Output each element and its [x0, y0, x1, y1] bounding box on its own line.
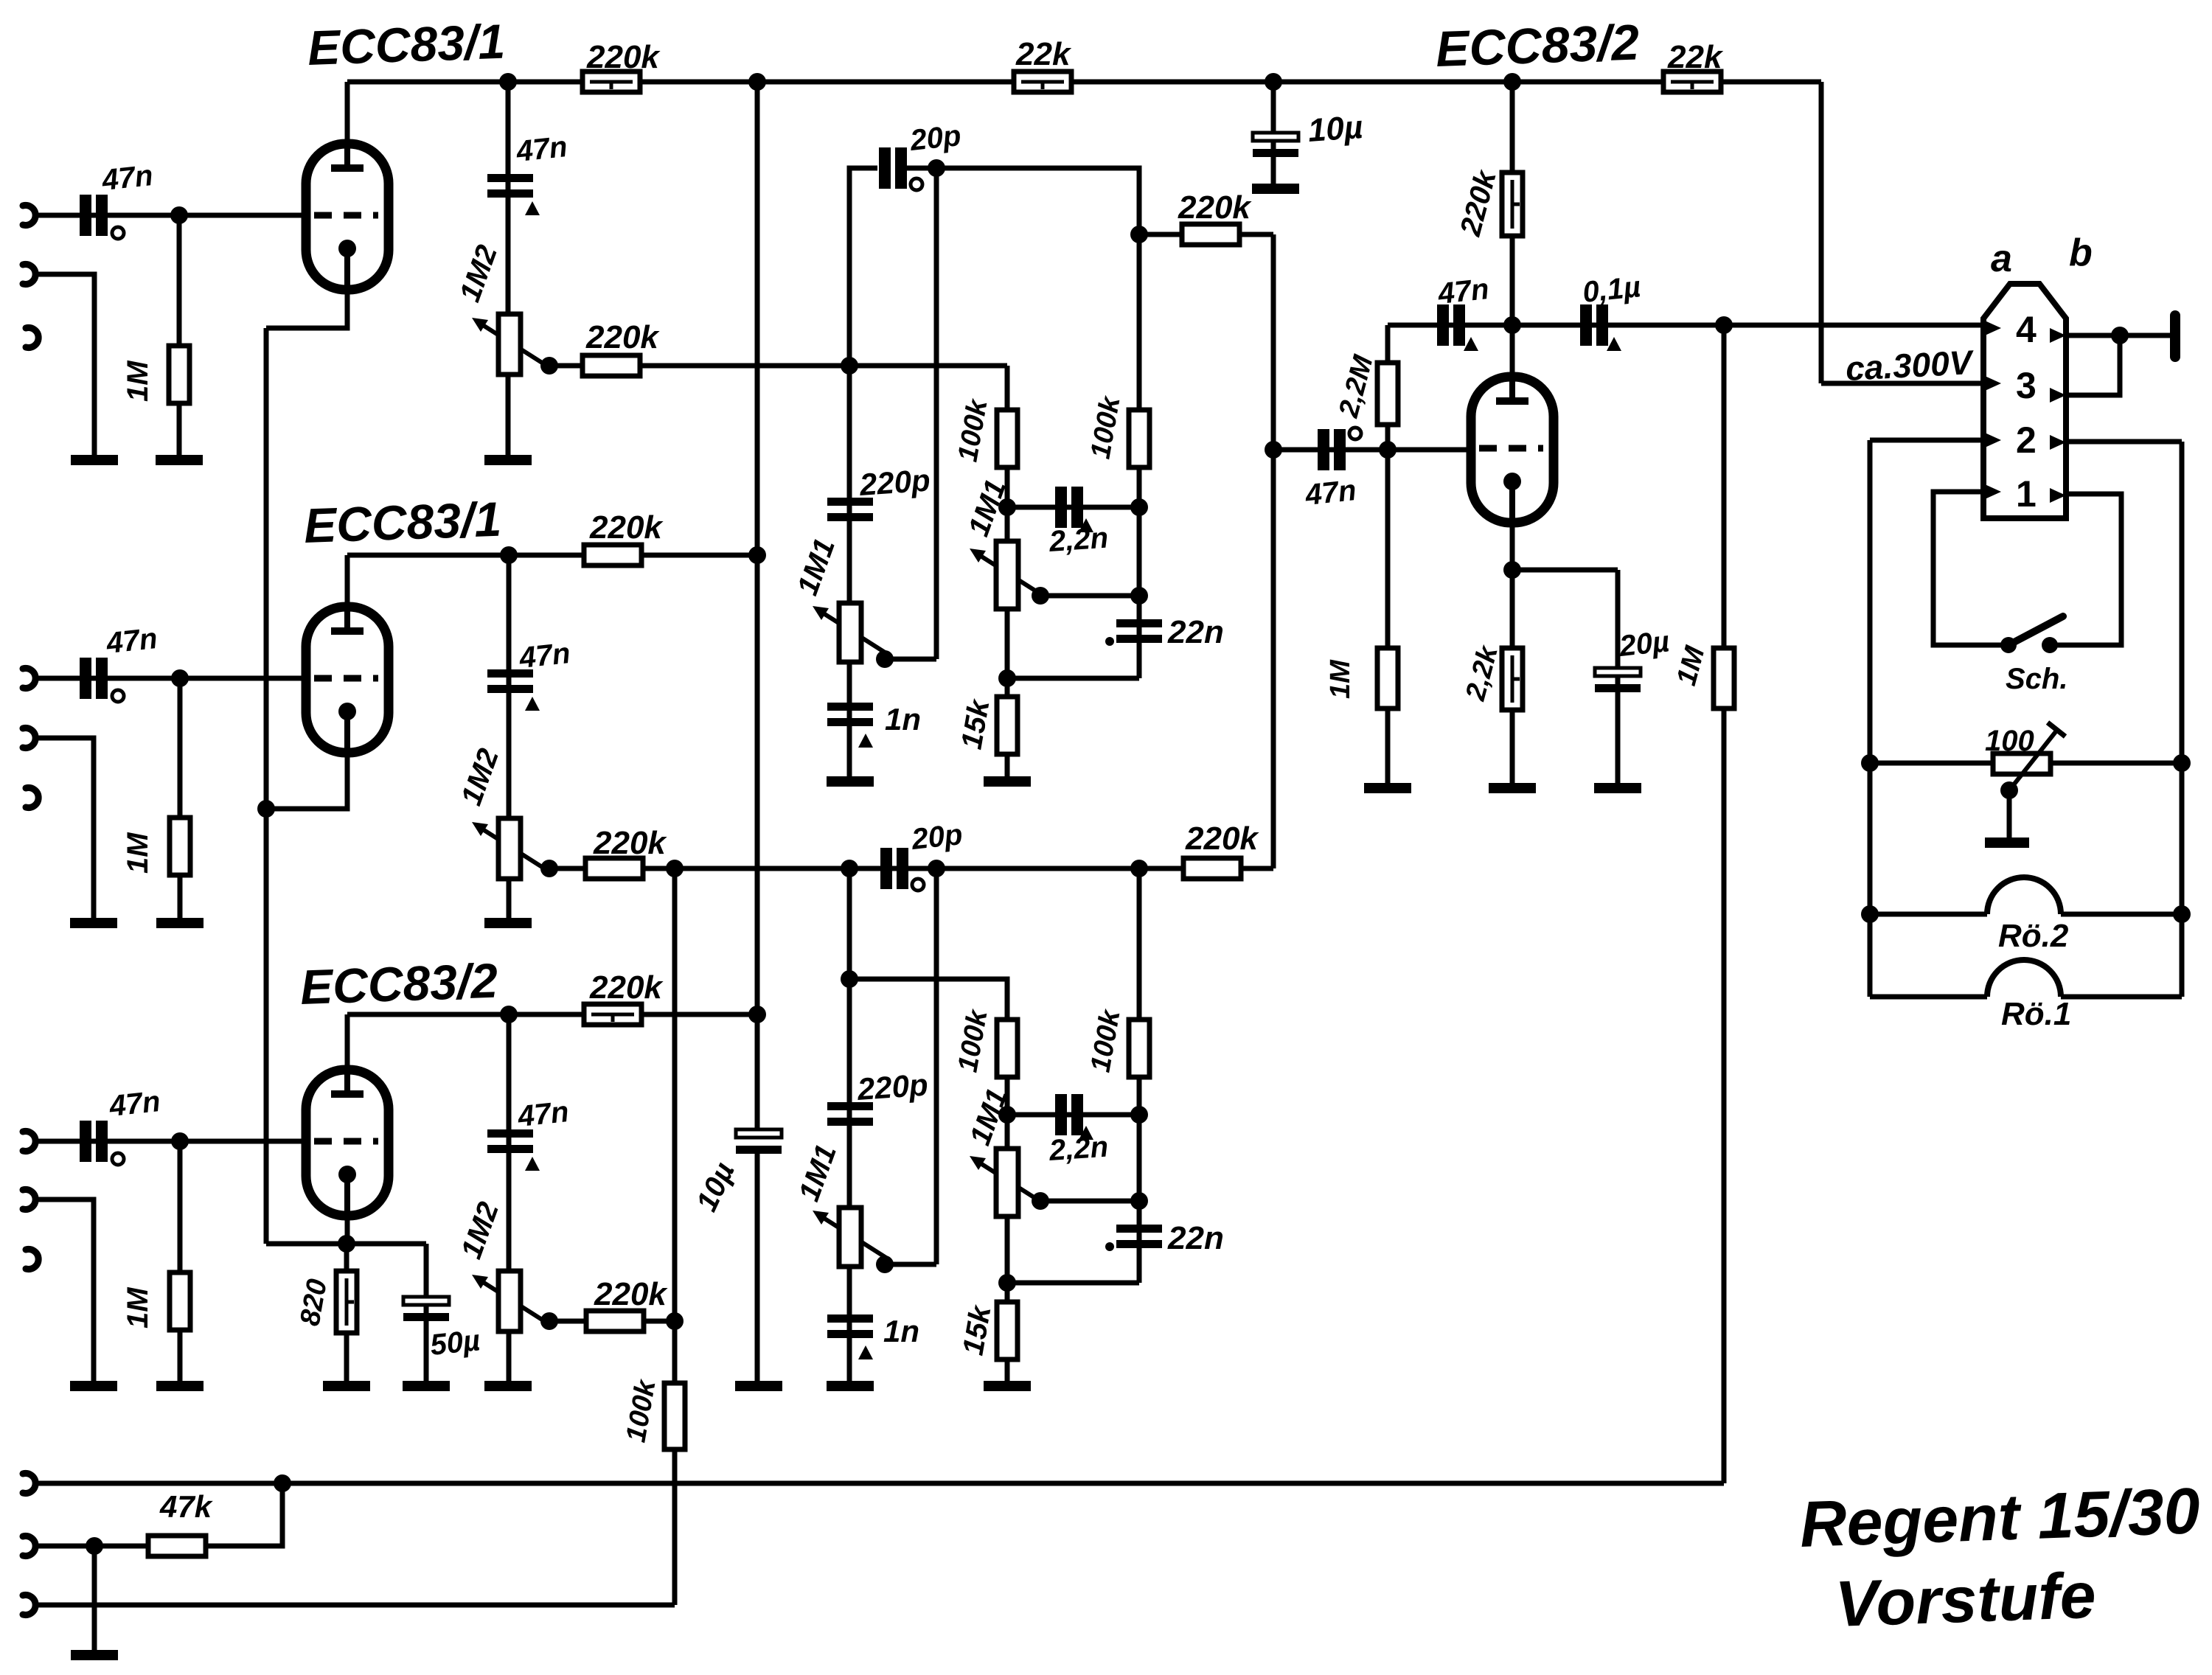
wire cathode bus x361: [264, 328, 269, 1244]
wire bottom bus jack4: [35, 1481, 1724, 1486]
polarity mark: [1607, 337, 1621, 351]
output terminal: [2170, 316, 2180, 357]
wire stage2 plate node: [347, 553, 757, 558]
resistor 220k plate V1: [582, 72, 640, 92]
svg-text:47n: 47n: [1303, 474, 1357, 512]
svg-text:10µ: 10µ: [1307, 109, 1364, 149]
ground input2b: [70, 918, 117, 928]
outer-foil dot 22n tone2: [1105, 1242, 1114, 1251]
wire below 22n row 2: [1007, 1281, 1139, 1286]
wire below 22n row: [1007, 676, 1139, 681]
ground 820R: [323, 1381, 370, 1391]
connector pin 4 contacts: [1985, 321, 2001, 335]
capacitor 22n tone1: [1116, 619, 1162, 643]
svg-text:1n: 1n: [885, 702, 921, 736]
node heater right 100R: [2173, 754, 2191, 772]
svg-text:50µ: 50µ: [428, 1324, 481, 1362]
outer-foil mark: [912, 879, 924, 891]
potentiometer 1M1 tone2 treble: [970, 1149, 1046, 1216]
outer-foil mark: [911, 178, 922, 190]
outer-foil mark: [112, 227, 124, 239]
svg-text:0,1µ: 0,1µ: [1581, 271, 1642, 309]
wire 47n to V4 grid: [1273, 448, 1472, 453]
polarity mark: [525, 201, 540, 215]
resistor 1M grid V1: [169, 346, 189, 403]
node 20p1 out: [928, 159, 945, 177]
jack J2a: [23, 669, 35, 689]
hum pot wiper arrow: [2009, 730, 2057, 790]
potentiometer 1M2 volume 2: [472, 818, 548, 879]
wire tone2 input chain x1152: [847, 868, 852, 1386]
wire B+ down to pin3: [1819, 82, 1824, 383]
resistor 2.2M feedback: [1377, 363, 1398, 425]
jack J1a: [23, 206, 35, 226]
resistor 220k plate V2: [584, 545, 641, 565]
svg-text:22n: 22n: [1167, 614, 1224, 650]
wire 100R wiper to ground: [2007, 790, 2012, 838]
node plate V3: [500, 1006, 518, 1023]
wire 50u to ground: [424, 1244, 429, 1386]
node plate V1 / 47n: [499, 73, 517, 91]
svg-text:47n: 47n: [517, 637, 571, 675]
ground input3b: [70, 1381, 117, 1391]
wire input2 to grid V2: [35, 676, 306, 681]
switch contact a: [2000, 637, 2017, 653]
svg-text:ECC83/1: ECC83/1: [303, 492, 502, 553]
wire input1b to ground: [35, 274, 94, 460]
node cathode V4: [1503, 561, 1521, 579]
wire stage3 mix down to jack6 via 100k: [672, 868, 678, 1605]
wire V3 plate riser: [345, 1014, 350, 1070]
wire input2b to ground: [35, 738, 94, 923]
resistor 100k tone2 a: [997, 1020, 1018, 1077]
outer-foil mark: [1349, 428, 1361, 439]
svg-text:4: 4: [2016, 309, 2037, 350]
wire grid leak R 1M: [177, 215, 182, 460]
resistor 1M output load: [1714, 648, 1734, 708]
ground 1n tone1: [827, 776, 874, 787]
svg-text:47n: 47n: [514, 130, 568, 168]
ground 1M2 pot 2: [484, 918, 532, 928]
svg-text:b: b: [2069, 231, 2093, 274]
resistor 22k decoupling 2: [1663, 72, 1721, 92]
node 15k top 2: [998, 1274, 1016, 1292]
wire pin 2b: [2068, 439, 2182, 445]
wire 20u to ground: [1615, 570, 1621, 788]
capacitor 10µ filter 2: [736, 1129, 782, 1154]
wire stage2 output y1178: [549, 866, 1273, 871]
node plate V2: [500, 546, 518, 564]
capacitor 47n input 1: [80, 195, 108, 236]
svg-text:Rö.1: Rö.1: [2001, 996, 2071, 1032]
svg-text:220k: 220k: [594, 1276, 668, 1312]
svg-text:220p: 220p: [858, 462, 931, 502]
wire stage1 output y496: [549, 363, 1007, 369]
wire V2 cathode to bus: [266, 753, 347, 809]
node tone2 in: [841, 860, 858, 877]
capacitor 0.1µ output: [1580, 304, 1608, 346]
connector pin 3 contacts: [1985, 376, 2001, 391]
ground 1M V4: [1364, 783, 1411, 793]
wire pin 1b switch loop right: [2050, 494, 2121, 645]
svg-text:ECC83/2: ECC83/2: [299, 953, 499, 1014]
capacitor 47n mix to grid V4: [1318, 429, 1346, 470]
wire stage3 output to 100k node: [549, 1319, 675, 1324]
node 20p2 out: [928, 860, 945, 877]
svg-text:ECC83/1: ECC83/1: [307, 14, 506, 75]
node wiper row1: [1130, 587, 1148, 605]
capacitor 220p tone2: [827, 1102, 873, 1126]
jack J1c: [26, 328, 38, 348]
ground 1M V3: [156, 1381, 204, 1391]
wire Rö.2 row left: [1870, 912, 1987, 917]
capacitor 47n feedback: [1437, 304, 1465, 346]
wire 20p out down to 1M1 wiper: [934, 168, 939, 659]
wire pin 1a switch loop left: [1933, 492, 2008, 645]
jack J4c: [23, 1595, 35, 1615]
wire tone2 middle column: [849, 979, 1007, 1386]
svg-text:220k: 220k: [585, 319, 660, 355]
wire pin 4b to output terminal: [2068, 333, 2175, 338]
node mix2: [1130, 860, 1148, 877]
wire 20p out across to x1545: [907, 168, 1139, 678]
polarity mark: [525, 697, 540, 711]
node 2.2n2 a: [998, 1106, 1016, 1124]
capacitor 20p bypass 1: [879, 147, 907, 189]
wire stage3 plate node: [347, 1012, 757, 1017]
resistor 100k tone2 b: [1129, 1020, 1150, 1077]
wire V3 cathode: [345, 1216, 350, 1244]
node 10µ tap: [1265, 73, 1282, 91]
wire 10u2 to ground: [755, 1150, 760, 1386]
connector pin 2 contacts: [1985, 433, 2001, 448]
wire to 100k column: [849, 363, 1007, 369]
svg-text:20p: 20p: [909, 818, 964, 856]
ground 15k tone1: [984, 776, 1031, 787]
capacitor 2.2n tone2: [1055, 1094, 1083, 1135]
resistor 220k mix 1: [1182, 224, 1239, 245]
node pin4b tie: [2111, 327, 2129, 344]
resistor 47k jack5: [148, 1536, 206, 1556]
svg-text:22n: 22n: [1167, 1220, 1224, 1256]
svg-text:47n: 47n: [104, 622, 159, 660]
capacitor 1n tone2: [827, 1314, 873, 1338]
node B+ stage2: [748, 546, 766, 564]
node 2.2n1 b: [1130, 498, 1148, 516]
wire input3 to grid V3: [35, 1139, 306, 1144]
ground 1n tone2: [827, 1381, 874, 1391]
node stage3 join: [666, 860, 684, 877]
wire V4 cathode thru 2.2k: [1510, 523, 1515, 788]
node 47n grid V4: [1265, 441, 1282, 459]
outer-foil mark: [112, 690, 124, 702]
ground input1b: [71, 455, 118, 465]
svg-text:a: a: [1991, 237, 2012, 280]
node 100R wiper: [2000, 781, 2018, 799]
tube V4 ECC83/2 triode b: [1471, 377, 1554, 523]
wire 20p2 out down to wiper: [934, 868, 939, 1264]
wire jack5 via 47k: [35, 1483, 282, 1546]
resistor 15k tone1: [997, 697, 1018, 754]
svg-text:Sch.: Sch.: [2006, 663, 2067, 695]
heater Rö.1: [1987, 960, 2061, 997]
ground 1M2 pot 3: [484, 1381, 532, 1391]
resistor 220k stage1 out: [582, 355, 640, 376]
svg-text:2: 2: [2016, 419, 2037, 461]
node tone wiper 1: [1032, 587, 1049, 605]
capacitor 47n input 3: [80, 1121, 108, 1162]
resistor 100k tone1 a: [997, 410, 1018, 467]
wire cathode thru 820R: [344, 1244, 349, 1386]
node wiper pot1: [540, 357, 558, 375]
ground jack5: [71, 1650, 118, 1660]
svg-text:220k: 220k: [589, 509, 664, 546]
svg-text:Rö.2: Rö.2: [1998, 918, 2069, 954]
svg-text:Regent 15/30: Regent 15/30: [1798, 1474, 2201, 1561]
resistor 220k plate V4: [1502, 173, 1523, 236]
svg-text:ca.300V: ca.300V: [1845, 343, 1975, 388]
capacitor 47n stage1 bright: [487, 174, 533, 198]
svg-text:220p: 220p: [855, 1067, 929, 1107]
node 2.2n2 b: [1130, 1106, 1148, 1124]
wire grid leak R 1M stage3: [178, 1141, 183, 1386]
connector pin 1 contacts: [1985, 484, 2001, 499]
node wiper pot3: [540, 1312, 558, 1330]
svg-text:22k: 22k: [1667, 39, 1724, 75]
wire jack5 to ground: [92, 1546, 97, 1655]
wire B+ rail top: [347, 80, 1821, 85]
node grid V2: [171, 669, 189, 687]
capacitor 47n stage3 bright: [487, 1129, 533, 1153]
svg-text:Vorstufe: Vorstufe: [1834, 1559, 2097, 1640]
wire tone pot wiper row: [1040, 593, 1139, 599]
jack J3a: [23, 1132, 35, 1152]
svg-text:220k: 220k: [1185, 821, 1259, 857]
svg-text:1: 1: [2016, 473, 2037, 515]
wire grid leak R 1M stage2: [178, 678, 183, 923]
node tone wiper 2: [1032, 1192, 1049, 1210]
svg-text:1M: 1M: [122, 360, 154, 402]
svg-text:47n: 47n: [515, 1096, 570, 1133]
svg-text:20p: 20p: [908, 119, 962, 157]
node heater right Rö.2: [2173, 905, 2191, 923]
node 220k stage3 out: [666, 1312, 684, 1330]
capacitor 10µ filter 1: [1253, 133, 1298, 157]
node cathode bias: [338, 1235, 355, 1253]
node bass wiper 2: [876, 1256, 894, 1273]
svg-text:1M: 1M: [122, 832, 154, 874]
svg-text:220k: 220k: [1178, 189, 1252, 226]
node tone1 in: [841, 357, 858, 375]
node 2.2n1 a: [998, 498, 1016, 516]
wire heater box left edge: [1868, 440, 1873, 997]
wire pin 3b tie to pin 4b: [2068, 335, 2120, 395]
outer-foil dot 22n tone1: [1105, 637, 1114, 646]
ground 1M V1: [156, 455, 203, 465]
capacitor 20p bypass 2: [880, 848, 908, 889]
ground 10µ 1: [1252, 184, 1299, 194]
polarity mark: [1464, 337, 1478, 351]
node plate V4 out: [1503, 316, 1521, 334]
resistor 100 hum pot: [1993, 753, 2051, 774]
wire jack6 bus: [35, 1603, 675, 1608]
node output / 1M: [1715, 316, 1733, 334]
wire stage2 plate node down thru 47n and pot: [507, 555, 512, 923]
wire 10u filter cap drop: [1271, 82, 1276, 184]
wire plate node down thru 47n and 1M2 pot: [506, 82, 511, 460]
ground 20µ: [1594, 783, 1641, 793]
svg-text:220k: 220k: [593, 825, 667, 861]
svg-text:1M: 1M: [1325, 659, 1356, 699]
ground 50µ: [403, 1381, 450, 1391]
polarity mark: [858, 734, 873, 748]
capacitor 47n stage2 bright: [487, 669, 533, 693]
svg-text:2,2n: 2,2n: [1048, 522, 1110, 559]
capacitor 50µ cathode bypass: [403, 1297, 449, 1321]
wire Rö.1 row left: [1870, 995, 1987, 1000]
resistor 100k tone1 b: [1129, 410, 1150, 467]
wire V1 cathode: [266, 290, 347, 328]
node cathode bus V2: [257, 800, 275, 818]
node grid V4: [1379, 441, 1397, 459]
wire 2.2M / 1M grid column: [1385, 325, 1391, 788]
wire V2 plate riser: [345, 555, 350, 607]
polarity mark: [1079, 518, 1093, 532]
resistor 1M grid V4: [1377, 648, 1398, 708]
wire tone pot wiper row 2: [1040, 1199, 1139, 1204]
tube V2 ECC83/1 triode b: [306, 607, 389, 753]
ground 2.2k: [1489, 783, 1536, 793]
wire cathode bus corner: [266, 1242, 347, 1247]
wire 220k mix top row: [1139, 232, 1273, 237]
potentiometer 1M2 volume 1: [472, 314, 548, 375]
capacitor 22n tone2: [1116, 1225, 1162, 1248]
polarity mark: [1079, 1126, 1093, 1140]
resistor 2.2k cathode V4: [1502, 648, 1523, 710]
wire B+ bus vertical x1027: [755, 82, 760, 1132]
node mix1: [1130, 226, 1148, 243]
ground 1M2 pot 1: [484, 455, 532, 465]
resistor 220k stage2 out: [585, 858, 643, 879]
ground 100R wiper: [1985, 837, 2029, 848]
svg-text:220k: 220k: [589, 969, 664, 1006]
wire ca.300V to connector pin 3a: [1821, 381, 1983, 386]
wire 2.2n row: [1007, 505, 1139, 510]
svg-text:1n: 1n: [883, 1314, 919, 1348]
wire V1 plate riser: [345, 82, 350, 144]
wire cathode to 20u: [1512, 568, 1618, 573]
node B+ bus top: [748, 73, 766, 91]
node bass wiper 1: [876, 650, 894, 668]
svg-text:47n: 47n: [1436, 273, 1490, 310]
jack J2b: [23, 728, 35, 748]
ground 1M V2: [156, 918, 204, 928]
wire output 1M column down: [1722, 325, 1727, 1483]
resistor 220k plate V3: [584, 1004, 641, 1025]
connector body a/b: [1983, 284, 2066, 518]
svg-text:22k: 22k: [1015, 36, 1072, 72]
resistor 100k jack6 feed: [664, 1383, 685, 1449]
potentiometer 1M2 volume 3: [472, 1271, 548, 1331]
outer-foil mark: [112, 1153, 124, 1165]
resistor 820 cathode bias: [336, 1271, 357, 1333]
capacitor 20µ cathode bypass V4: [1595, 668, 1641, 692]
node jack4 / 47k: [274, 1474, 291, 1492]
node heater left 100R: [1861, 754, 1879, 772]
node tone2 branch: [841, 970, 858, 988]
jack J1b: [23, 265, 35, 285]
jack J2c: [26, 788, 38, 808]
node heater left Rö.2: [1861, 905, 1879, 923]
svg-text:3: 3: [2016, 365, 2037, 406]
wire stage3 plate node down thru 47n and pot: [507, 1014, 512, 1386]
jack J3c: [26, 1250, 38, 1270]
jack J4a: [23, 1474, 35, 1494]
capacitor 1n tone1: [827, 703, 873, 726]
wire 2.2n row 2: [1007, 1112, 1139, 1118]
jack J4b: [23, 1536, 35, 1556]
wire tone1 middle column x1366: [1005, 366, 1010, 781]
wire input1 to grid V1: [35, 213, 306, 218]
capacitor 220p tone1: [827, 498, 873, 521]
potentiometer 1M1 tone2 bass: [813, 1208, 888, 1267]
polarity mark: [858, 1345, 873, 1359]
wire NFB and output row to pin 4a: [1388, 323, 1983, 328]
wire mixed node x1727: [1271, 234, 1276, 868]
svg-text:20µ: 20µ: [1617, 625, 1671, 663]
svg-text:1M: 1M: [122, 1286, 154, 1328]
polarity mark: [525, 1157, 540, 1171]
resistor 1M grid V3: [170, 1272, 190, 1330]
node wiper pot2: [540, 860, 558, 877]
svg-text:220k: 220k: [586, 39, 661, 75]
node 15k top 1: [998, 669, 1016, 687]
tube V3 ECC83/2 triode a: [306, 1070, 389, 1216]
switch Sch. lever: [2008, 616, 2063, 645]
potentiometer 1M1 tone1 bass: [813, 603, 888, 662]
svg-text:ECC83/2: ECC83/2: [1435, 14, 1641, 77]
svg-text:47n: 47n: [100, 159, 154, 197]
wire tone1 input chain x1152: [849, 168, 877, 781]
wire Rö.2 row right: [2061, 912, 2182, 917]
wire 1M1 wiper lead 2: [885, 1262, 936, 1267]
wire V4 plate column: [1510, 82, 1515, 377]
wire 100R row: [1870, 761, 2182, 766]
wire input3b to ground: [35, 1199, 94, 1386]
svg-text:100: 100: [1985, 725, 2034, 757]
jack J3b: [23, 1190, 35, 1210]
capacitor 47n input 2: [80, 658, 108, 699]
node wiper row2: [1130, 1192, 1148, 1210]
svg-text:47k: 47k: [159, 1489, 214, 1524]
node grid V3: [171, 1132, 189, 1150]
wire cathode to 50u: [347, 1242, 426, 1247]
node grid V1: [170, 206, 188, 224]
node B+ stage3: [748, 1006, 766, 1023]
resistor 220k mix 2: [1183, 858, 1241, 879]
ground 10µ 2: [735, 1381, 782, 1391]
resistor 220k stage3 out: [586, 1311, 644, 1331]
node jack5: [86, 1537, 103, 1555]
potentiometer 1M1 tone1 treble: [970, 541, 1046, 609]
switch contact b: [2042, 637, 2058, 653]
ground 15k tone2: [984, 1381, 1031, 1391]
wire tone2 right column: [1137, 868, 1142, 1283]
wire pin 2a: [1870, 438, 1983, 443]
node 220k plate V4: [1503, 73, 1521, 91]
wire 1M1 wiper lead: [885, 657, 936, 662]
wire Rö.1 row right: [2061, 995, 2182, 1000]
